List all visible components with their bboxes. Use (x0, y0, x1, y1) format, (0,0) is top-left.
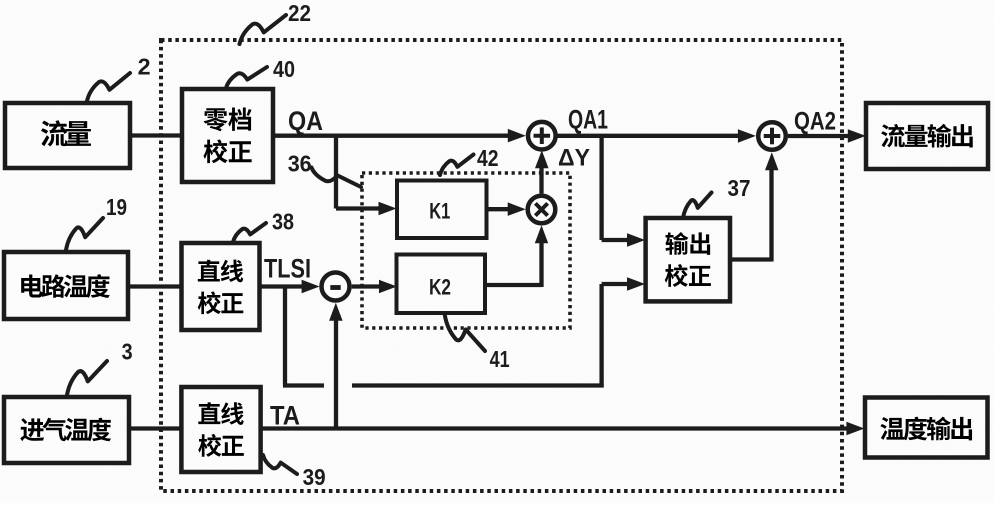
input block 电路温度 (4, 252, 128, 319)
svg-text:37: 37 (728, 175, 751, 201)
block 37 输出校正 (646, 218, 730, 301)
wire K2 to multiplier (485, 283, 542, 287)
gain block K1 (397, 181, 487, 239)
svg-text:QA2: QA2 (794, 108, 836, 136)
svg-text:3: 3 (122, 339, 133, 365)
multiplier junction (×) (528, 196, 556, 224)
svg-text:QA1: QA1 (568, 105, 608, 135)
label 38 with leader (233, 209, 294, 243)
wire ΔY: multiplier up to QA1 (539, 163, 543, 194)
wire TA: block 39 to 温度输出 (261, 426, 851, 430)
label 41 with leader (445, 315, 510, 372)
svg-text:TLSI: TLSI (264, 254, 311, 284)
inner dashed box (gain stage 41/42) (362, 173, 570, 328)
svg-text:36: 36 (288, 151, 312, 177)
svg-text:38: 38 (272, 209, 294, 235)
svg-text:K2: K2 (429, 275, 451, 300)
block 38 直线校正 (182, 243, 260, 330)
wire QA: block 40 to junction QA1 (273, 134, 512, 138)
svg-text:K1: K1 (429, 198, 450, 223)
wire TA branch up to subtractor (334, 315, 338, 429)
input block 流量 (5, 103, 130, 168)
subtractor junction (−) (322, 273, 350, 301)
input block 进气温度 (4, 397, 129, 463)
label 19 with leader (66, 194, 127, 250)
wire TLSI branch to block 37 input 2 (283, 287, 287, 386)
summing junction QA2 (+) (758, 122, 786, 150)
svg-text:TA: TA (270, 401, 300, 431)
gain block K2 (397, 255, 486, 314)
label 42 with leader (440, 145, 499, 175)
label 39 with leader (263, 455, 326, 490)
label 40 with leader (226, 56, 295, 88)
wire 进气温度 to block 39 (129, 426, 181, 430)
label 37 with leader (683, 175, 751, 218)
svg-text:41: 41 (490, 346, 510, 372)
svg-text:40: 40 (273, 56, 295, 82)
output block 温度输出 (865, 398, 988, 458)
output block 流量输出 (866, 103, 988, 169)
label 22 with leader (240, 0, 312, 44)
dashed enclosure box 22 (161, 40, 842, 491)
wire QA1 to QA2 (556, 134, 742, 138)
wire QA branch down to K1 (334, 136, 338, 209)
svg-text:42: 42 (477, 145, 499, 171)
svg-text:39: 39 (303, 464, 326, 490)
svg-text:19: 19 (106, 194, 127, 220)
wire TLSI: block 38 to subtractor (260, 284, 307, 288)
svg-text:ΔY: ΔY (558, 145, 590, 172)
svg-text:QA: QA (288, 106, 323, 136)
wire 流量 to block 40 (130, 133, 182, 137)
block 39 直线校正 (181, 387, 260, 472)
wire block 37 output up to QA2 (730, 257, 772, 261)
label 2 with leader (87, 53, 151, 101)
svg-text:2: 2 (138, 53, 151, 79)
wire QA1 branch down to block 37 input 1 (599, 136, 603, 240)
wire 电路温度 to block 38 (128, 284, 182, 288)
label 3 with leader (67, 339, 133, 395)
wire K1 to multiplier (487, 207, 513, 211)
svg-text:22: 22 (288, 0, 311, 26)
block 40 零档校正 (182, 89, 273, 182)
wire subtractor to K2 (352, 284, 383, 288)
wire QA2 to 流量输出 (788, 134, 852, 138)
summing junction QA1 (+) (528, 122, 556, 150)
label 36 with leader (288, 151, 361, 187)
